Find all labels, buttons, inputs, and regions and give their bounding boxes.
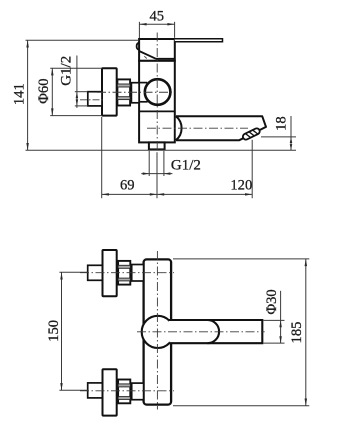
node upper-wall-stub	[88, 265, 103, 280]
node arrow-150-top	[60, 272, 63, 279]
node arrow-69-right	[150, 193, 157, 196]
node arrow-phi60-top	[51, 68, 54, 75]
node wall-escutcheon (Φ60 flange, side view)	[102, 68, 117, 115]
wire centerline-lower-inlet-axis	[80, 390, 174, 392]
node upper-nut-band-2	[118, 278, 130, 281]
svg-text:G1/2: G1/2	[58, 56, 74, 86]
wire centerline-upper-inlet-axis	[80, 272, 174, 274]
node lower-nut-band-2	[118, 397, 130, 400]
node upper-thread-stub	[132, 265, 144, 282]
wire dim-phi60 line	[51, 68, 53, 115]
wire dim-g12bot ext-left	[148, 151, 150, 176]
wire dim-g12bot line	[141, 173, 172, 175]
wire dim-69-120 line	[102, 193, 253, 195]
node spout (side view outline)	[176, 116, 266, 140]
wire dim-phi60 ext-bottom	[50, 115, 102, 117]
node arrow-phi30-up	[279, 320, 282, 327]
svg-text:185: 185	[289, 322, 305, 344]
node thread-stub (into body)	[131, 83, 139, 103]
wire dim-185 ext-top	[173, 258, 309, 260]
wire dim-141 line	[27, 40, 29, 150]
node aerator (hatched capsule at spout tip)	[242, 127, 261, 140]
svg-text:18: 18	[274, 116, 290, 131]
wire dim-45 extension right	[174, 22, 176, 38]
wire dim-45 extension left	[138, 22, 140, 39]
wire inlet-passage-bottom (inside body to circle)	[139, 101, 148, 103]
wire ext-center-down	[156, 152, 158, 198]
wire dim-g12top ext-bottom	[75, 105, 88, 107]
wire lever-underside-horizontal	[156, 58, 175, 60]
node body (main vertical body rectangle)	[139, 61, 175, 143]
wire dim-phi60 ext-top	[50, 67, 102, 69]
wire dim-g12top ext-top	[75, 91, 88, 93]
wire dim-18 ext-top	[261, 136, 296, 138]
wire dim-150 line	[61, 272, 63, 390]
node handle-base (cartridge cap rectangle)	[139, 39, 175, 61]
wire ext-escutcheon-down (left end of 69 dim)	[101, 117, 103, 198]
node nut-facet-band-top	[117, 84, 130, 87]
node arrow-g12bot-left	[143, 172, 150, 175]
node arrow-141-top	[26, 40, 29, 47]
wire bottom-reference-line (shared ext for 141 and 18)	[26, 149, 297, 151]
svg-text:45: 45	[150, 9, 165, 25]
svg-text:Φ30: Φ30	[264, 289, 280, 314]
node upper-escutcheon	[103, 250, 117, 296]
node arrow-g12top-down	[76, 99, 79, 106]
node arrow-150-bottom	[60, 383, 63, 390]
node upper-nut-band-1	[118, 265, 130, 268]
wire body-inner-line	[139, 110, 175, 112]
node arrow-g12bot-right	[164, 172, 171, 175]
wire dim-phi30 line (extended up for text)	[280, 291, 282, 343]
wire dim-150 ext-top	[59, 271, 87, 273]
node lever-seam-arc	[208, 320, 220, 343]
node lower-escutcheon	[103, 369, 117, 415]
node valve-circle	[142, 316, 174, 348]
wire centerline-spout-axis	[147, 127, 248, 129]
node body-circle (union ball)	[145, 79, 171, 105]
node arrow-45-right	[167, 23, 174, 26]
node wall-pipe (G1/2 stub into wall)	[88, 92, 102, 106]
wire ext-spouttip-down	[251, 140, 253, 198]
wire dim-g12top line (extended up for text)	[76, 56, 78, 108]
node lower-nut-band-1	[118, 384, 130, 387]
node outlet-fitting (shower outlet G1/2 below body)	[149, 142, 165, 149]
node arrow-185-top	[305, 259, 308, 266]
wire dim-18 line (extended up for text)	[290, 116, 292, 150]
node arrow-45-left	[139, 23, 146, 26]
node lower-wall-stub	[88, 383, 103, 398]
node arrow-phi30-down	[279, 336, 282, 343]
wire dim-45 line	[139, 23, 174, 25]
node lower-nut	[118, 380, 130, 404]
node arrow-69-left	[102, 193, 109, 196]
node arrow-120-right	[245, 193, 252, 196]
svg-text:G1/2: G1/2	[171, 158, 201, 174]
node arrow-141-bottom	[26, 143, 29, 150]
node lower-thread-stub	[132, 383, 144, 400]
node lever-arc (rounded back end of lever at top-left)	[137, 43, 139, 50]
wire centerline-lever-axis	[137, 331, 265, 333]
node arrow-18-down	[290, 144, 293, 150]
node lever-bar (handle lever pointing right)	[175, 39, 223, 42]
svg-text:150: 150	[46, 320, 62, 342]
wire dim-phi30 ext-top	[264, 319, 285, 321]
wire dim-phi30 ext-bottom	[264, 342, 285, 344]
wire centerline-wallpipe-axis	[80, 99, 104, 101]
wire dim-150 ext-bottom	[59, 389, 87, 391]
node union-nut (side view)	[117, 79, 130, 105]
node arrow-185-bottom	[305, 399, 308, 406]
svg-text:120: 120	[230, 178, 252, 194]
svg-text:Φ60: Φ60	[36, 78, 52, 103]
wire centerline-vertical-body	[156, 33, 158, 151]
wire inlet-passage-top (inside body to circle)	[139, 82, 147, 84]
node lever-grip (bar to the right)	[169, 320, 262, 343]
node arrow-phi60-bottom	[51, 108, 54, 115]
wire centerline-inlet-axis	[97, 91, 173, 93]
wire lever-underside-diagonal	[139, 51, 156, 59]
wire dim-185 ext-bottom	[173, 405, 309, 407]
wire dim-185 line	[305, 259, 307, 406]
node arrow-g12top-up	[76, 92, 79, 99]
wire centerline-vertical-bottomview	[156, 251, 158, 410]
node upper-nut	[118, 261, 130, 285]
svg-text:141: 141	[12, 83, 28, 105]
wire dim-g12bot ext-right	[163, 151, 165, 176]
node arrow-120-left	[157, 193, 164, 196]
svg-text:69: 69	[120, 178, 135, 194]
wire lever-seam-tick	[144, 56, 147, 58]
node arrow-18-up	[290, 137, 293, 143]
node spout-root-arc	[176, 116, 182, 140]
node nut-facet-band-bottom	[117, 97, 130, 100]
wire dim-141 ext-top	[26, 39, 140, 41]
node body-slab	[144, 259, 172, 404]
